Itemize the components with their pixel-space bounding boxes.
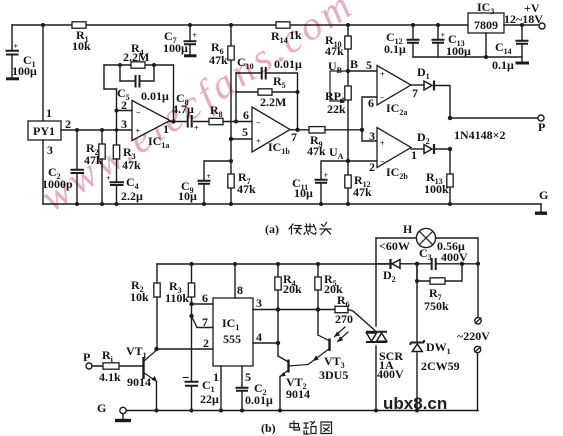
capacitor C5	[117, 63, 169, 103]
wire: PY1 pin2 output to op-amp + input	[61, 117, 132, 131]
regulator IC3 7809	[468, 0, 504, 33]
sensor PY1	[28, 121, 61, 140]
wire: B to IC2a pin5	[348, 58, 377, 72]
svg-text:PY1: PY1	[33, 124, 55, 138]
wire: VT1 collector node to 555 pin2	[154, 336, 213, 351]
capacitor C3b	[417, 239, 468, 270]
svg-text:47k: 47k	[84, 153, 103, 167]
svg-text:3: 3	[47, 143, 53, 157]
svg-text:0.01μ: 0.01μ	[245, 393, 273, 407]
timer IC1 555	[213, 298, 253, 366]
wire: IC1b output	[290, 129, 309, 131]
potentiometer RP1	[325, 71, 351, 161]
svg-text:−: −	[380, 94, 385, 103]
wire: 555 pin7	[189, 314, 213, 329]
wire: pin2 node to IC2b	[348, 160, 377, 174]
svg-text:7: 7	[291, 130, 297, 144]
resistor R3	[113, 145, 141, 172]
svg-text:0.1μ: 0.1μ	[492, 58, 514, 72]
svg-text:−: −	[256, 119, 261, 128]
svg-text:5: 5	[245, 370, 251, 384]
svg-text:2: 2	[203, 336, 209, 350]
svg-text:G: G	[97, 401, 106, 415]
wire: feedback2 right drop	[295, 92, 299, 132]
capacitor C7	[163, 23, 198, 56]
svg-text:+: +	[380, 70, 385, 79]
svg-text:+: +	[207, 172, 212, 181]
capacitor C11	[292, 159, 350, 206]
svg-text:(a): (a)	[265, 222, 279, 236]
watermark www.elecfans.com	[32, 0, 363, 221]
op-amp IC2a	[377, 66, 418, 118]
wire: feedback2 bottom branch	[236, 90, 300, 94]
capacitor C1b	[184, 378, 220, 413]
svg-text:6: 6	[202, 291, 208, 305]
resistor R3b	[165, 262, 195, 381]
svg-text:8: 8	[237, 283, 243, 297]
svg-text:47k: 47k	[209, 53, 228, 67]
svg-text:47k: 47k	[325, 44, 344, 58]
svg-text:5: 5	[242, 125, 248, 139]
resistor R6	[209, 23, 234, 139]
label 1N4148x2	[454, 128, 506, 142]
svg-text:1k: 1k	[289, 28, 302, 42]
wire: output node to P terminal	[448, 115, 546, 134]
wire: 555 pin3	[253, 296, 278, 310]
svg-text:−: −	[136, 108, 141, 117]
svg-text:~220V: ~220V	[457, 329, 490, 343]
wire: R8 to IC1b pin6	[223, 120, 252, 124]
wire: feedback top	[104, 64, 174, 66]
watermark ubx8.cn	[383, 394, 447, 413]
svg-text:P: P	[83, 350, 90, 364]
svg-text:P: P	[538, 120, 545, 134]
wire: UA to IC2a pin6	[362, 96, 377, 130]
svg-text:22k: 22k	[327, 102, 346, 116]
svg-text:2.2μ: 2.2μ	[121, 189, 143, 203]
svg-text:5: 5	[366, 58, 372, 72]
svg-text:0.1μ: 0.1μ	[384, 42, 406, 56]
ground symbol right end of (a) rail	[535, 204, 547, 214]
resistor R4	[123, 41, 149, 68]
wire: IC3 output to +V terminal	[504, 1, 545, 29]
op-amp IC1a	[121, 98, 170, 150]
lamp H	[376, 222, 478, 264]
resistor R8	[209, 103, 223, 125]
wire: top rail (b)	[157, 263, 391, 265]
wire: 555 pin6	[189, 291, 213, 306]
node B	[328, 57, 358, 75]
svg-text:110k: 110k	[165, 291, 189, 305]
svg-text:3: 3	[369, 129, 375, 143]
svg-text:ubx8.cn: ubx8.cn	[383, 394, 447, 413]
ground symbol (b)	[115, 414, 131, 421]
wire: IC1a output	[170, 121, 186, 123]
capacitor C9	[178, 159, 233, 206]
svg-text:9014: 9014	[286, 387, 310, 401]
wire: snubber node to AC column	[462, 262, 480, 266]
resistor R12	[345, 161, 372, 206]
capacitor C2b pin5	[236, 366, 274, 413]
svg-text:3: 3	[121, 117, 127, 131]
svg-text:47k: 47k	[307, 144, 326, 158]
wire: PY1 pin3 to ground rail	[43, 140, 53, 204]
capacitor C12	[384, 23, 420, 57]
svg-text:+: +	[14, 42, 19, 51]
svg-text:(b): (b)	[261, 421, 276, 435]
wire: UA to IC2b pin3	[362, 129, 377, 143]
diode D2	[411, 130, 452, 154]
svg-text:100μ: 100μ	[446, 44, 471, 58]
terminal G (b)	[97, 401, 126, 415]
svg-text:2CW59: 2CW59	[421, 359, 460, 373]
svg-text:22μ: 22μ	[200, 392, 219, 406]
capacitor C8	[172, 91, 209, 133]
resistor R10	[325, 23, 351, 71]
svg-text:4: 4	[256, 330, 262, 344]
feedback loop left jog	[104, 65, 117, 89]
wire: top +V rail	[12, 24, 468, 26]
svg-text:+: +	[193, 31, 198, 40]
svg-text:2.2M: 2.2M	[260, 95, 286, 109]
svg-text:2.2M: 2.2M	[123, 50, 149, 64]
capacitor C4	[106, 159, 143, 206]
transistor VT2 9014	[278, 356, 310, 413]
svg-text:<60W: <60W	[379, 239, 410, 253]
wire: R9 to UA node	[325, 128, 364, 132]
svg-text:6: 6	[243, 108, 249, 122]
svg-text:10k: 10k	[72, 39, 91, 53]
resistor R2b	[130, 264, 160, 349]
svg-text:10k: 10k	[130, 290, 149, 304]
caption (b) chinese 电路图	[290, 421, 332, 434]
svg-text:7809: 7809	[474, 18, 498, 32]
svg-text:B: B	[350, 57, 358, 71]
svg-text:+: +	[256, 137, 261, 146]
svg-text:+: +	[106, 174, 111, 183]
capacitor C1	[6, 25, 38, 79]
svg-text:+: +	[324, 171, 329, 180]
wire: rail to PY1 pin1	[41, 23, 52, 121]
svg-text:400V: 400V	[441, 250, 468, 264]
wire: pin2 node riser	[115, 89, 133, 145]
svg-text:1: 1	[46, 106, 52, 120]
resistor R9	[307, 127, 344, 161]
capacitor C13	[432, 23, 472, 58]
wire: 555 pin1	[213, 366, 223, 413]
wire: bottom ground rail (b)	[123, 410, 478, 412]
svg-text:2: 2	[369, 160, 375, 174]
svg-text:4.1k: 4.1k	[99, 370, 121, 384]
transistor VT1 9014	[126, 344, 159, 413]
svg-text:1: 1	[163, 122, 169, 136]
svg-text:2: 2	[65, 117, 71, 131]
svg-text:9014: 9014	[127, 375, 151, 389]
wire: 555 pin8	[233, 262, 243, 298]
svg-text:47k: 47k	[237, 182, 256, 196]
resistor R5b	[315, 262, 343, 335]
svg-text:3: 3	[256, 296, 262, 310]
node G label (a)	[539, 188, 548, 202]
capacitor C14	[492, 23, 529, 72]
svg-text:1: 1	[213, 370, 219, 384]
svg-text:47k: 47k	[353, 185, 372, 199]
wire: 555 pin4	[253, 330, 278, 344]
op-amp IC2b	[377, 128, 417, 182]
svg-text:555: 555	[223, 332, 241, 346]
svg-text:7: 7	[202, 315, 208, 329]
resistor R2	[84, 128, 105, 206]
wire: bottom ground rail (a)	[43, 203, 541, 205]
svg-text:G: G	[539, 188, 548, 202]
resistor R7b	[415, 264, 462, 313]
svg-text:0.01μ: 0.01μ	[141, 89, 169, 103]
resistor R14	[271, 22, 302, 45]
svg-text:100k: 100k	[424, 182, 449, 196]
resistor Ri	[92, 348, 143, 384]
AC terminals ~220V	[457, 264, 490, 411]
wire: IC3 ground leg and cap commons	[413, 33, 522, 59]
resistor R13	[424, 149, 453, 206]
resistor R4b	[275, 262, 302, 356]
svg-text:3DU5: 3DU5	[319, 368, 348, 382]
svg-text:10μ: 10μ	[178, 189, 197, 203]
svg-text:H: H	[403, 222, 413, 236]
svg-text:6: 6	[368, 96, 374, 110]
resistor R1	[72, 22, 91, 53]
caption (b)	[261, 421, 276, 435]
svg-text:+: +	[441, 31, 446, 40]
svg-text:1N4148×2: 1N4148×2	[454, 128, 506, 142]
capacitor C2	[42, 128, 84, 206]
caption (a)	[265, 222, 279, 236]
svg-text:100μ: 100μ	[12, 64, 37, 78]
svg-text:+: +	[136, 127, 141, 136]
diode D2b	[376, 259, 419, 284]
caption (a) chinese 传感头	[289, 223, 331, 235]
triac SCR	[366, 238, 404, 413]
svg-text:20k: 20k	[283, 282, 302, 296]
svg-text:4.7μ: 4.7μ	[172, 102, 194, 116]
capacitor C10	[236, 55, 302, 92]
resistor R5	[258, 74, 286, 109]
svg-text:10μ: 10μ	[294, 186, 313, 200]
wire: pin3 line through R5 column	[278, 309, 335, 311]
svg-text:1000p: 1000p	[42, 177, 73, 191]
svg-text:7: 7	[412, 86, 418, 100]
svg-text:+: +	[380, 139, 385, 148]
diode D1	[411, 65, 450, 118]
wire: feedback right drop to output	[171, 65, 175, 124]
terminal P (b)	[83, 350, 92, 369]
zener DW1 2CW59	[411, 264, 460, 413]
svg-text:750k: 750k	[424, 299, 449, 313]
svg-text:100μ: 100μ	[163, 41, 188, 55]
svg-text:+: +	[194, 124, 199, 133]
svg-text:−: −	[380, 158, 385, 167]
phototransistor VT3 3DU5	[308, 327, 348, 382]
svg-text:0.01μ: 0.01μ	[274, 57, 302, 71]
svg-text:47k: 47k	[122, 158, 141, 172]
resistor R7	[228, 139, 256, 206]
svg-text:1: 1	[411, 148, 417, 162]
wire: IC1b +in pin5	[229, 125, 252, 141]
svg-text:400V: 400V	[377, 367, 404, 381]
resistor R6b	[335, 293, 375, 331]
wire: IC1b feedback tap riser	[235, 73, 237, 122]
op-amp IC1b	[243, 107, 297, 156]
svg-text:270: 270	[335, 312, 353, 326]
